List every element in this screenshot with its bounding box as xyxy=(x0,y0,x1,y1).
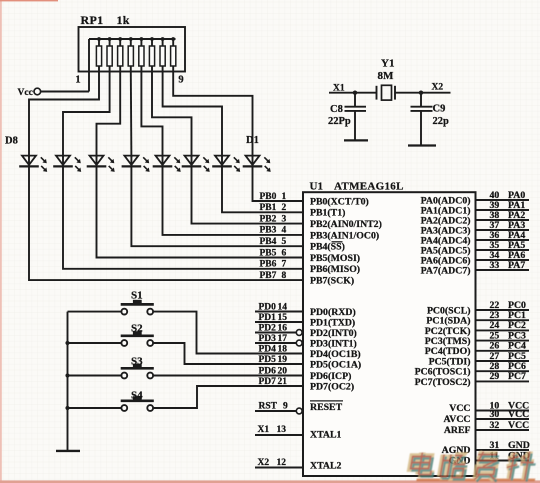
svg-text:20: 20 xyxy=(278,366,288,376)
svg-text:1: 1 xyxy=(282,192,287,202)
svg-text:PD6: PD6 xyxy=(259,366,277,376)
svg-text:Y1: Y1 xyxy=(381,58,394,70)
svg-text:ATMEAG16L: ATMEAG16L xyxy=(334,181,404,193)
svg-text:X1: X1 xyxy=(333,83,345,93)
svg-text:15: 15 xyxy=(278,313,288,323)
svg-text:X2: X2 xyxy=(258,458,270,468)
svg-text:33: 33 xyxy=(490,260,500,271)
svg-text:9: 9 xyxy=(178,75,183,86)
svg-text:4: 4 xyxy=(282,226,287,236)
svg-text:S2: S2 xyxy=(131,323,143,335)
svg-text:PB5(MOSI): PB5(MOSI) xyxy=(310,253,360,264)
svg-text:PB3(AIN1/OC0): PB3(AIN1/OC0) xyxy=(310,230,379,241)
svg-text:2: 2 xyxy=(282,203,287,213)
svg-text:XTAL2: XTAL2 xyxy=(310,461,341,472)
svg-text:D8: D8 xyxy=(5,136,18,147)
svg-text:PA7(ADC7): PA7(ADC7) xyxy=(421,265,471,276)
svg-text:AREF: AREF xyxy=(444,425,471,436)
svg-text:PC7(TOSC2): PC7(TOSC2) xyxy=(415,377,471,388)
svg-text:RESET: RESET xyxy=(310,402,343,413)
svg-text:22Pp: 22Pp xyxy=(328,116,351,127)
svg-text:1k: 1k xyxy=(117,13,130,27)
svg-text:30: 30 xyxy=(490,409,500,420)
svg-text:7: 7 xyxy=(282,260,287,270)
svg-text:22p: 22p xyxy=(433,116,450,127)
svg-text:X1: X1 xyxy=(258,425,270,435)
svg-text:PB2(AIN0/INT2): PB2(AIN0/INT2) xyxy=(310,219,382,230)
svg-text:14: 14 xyxy=(278,302,288,312)
svg-text:18: 18 xyxy=(278,344,288,354)
svg-text:PB3: PB3 xyxy=(260,226,277,236)
svg-text:PB0: PB0 xyxy=(260,192,277,202)
svg-text:VCC: VCC xyxy=(449,403,470,414)
svg-text:RST: RST xyxy=(259,402,278,412)
svg-text:9: 9 xyxy=(283,402,288,412)
svg-text:X2: X2 xyxy=(432,83,444,93)
svg-text:S4: S4 xyxy=(131,390,143,402)
svg-text:VCC: VCC xyxy=(508,409,529,420)
svg-text:PB6(MISO): PB6(MISO) xyxy=(310,264,360,275)
svg-text:PB4: PB4 xyxy=(260,237,277,247)
svg-text:6: 6 xyxy=(282,248,287,258)
svg-text:8M: 8M xyxy=(378,70,395,82)
svg-text:RP1: RP1 xyxy=(81,13,104,27)
svg-text:VCC: VCC xyxy=(508,420,529,431)
svg-text:S1: S1 xyxy=(131,290,143,302)
svg-text:16: 16 xyxy=(278,323,288,333)
svg-text:PD4(OC1B): PD4(OC1B) xyxy=(310,349,361,360)
svg-text:PB6: PB6 xyxy=(260,260,277,270)
svg-text:PD2(INT0): PD2(INT0) xyxy=(310,328,357,339)
svg-text:PB7: PB7 xyxy=(260,271,277,281)
svg-text:D1: D1 xyxy=(246,135,259,146)
svg-text:8: 8 xyxy=(282,271,287,281)
svg-text:PD6(ICP): PD6(ICP) xyxy=(310,371,351,382)
svg-text:PD2: PD2 xyxy=(259,323,277,333)
svg-text:12: 12 xyxy=(277,458,287,468)
svg-text:PD5(OC1A): PD5(OC1A) xyxy=(310,359,361,370)
svg-text:31: 31 xyxy=(490,440,500,451)
svg-text:PD0(RXD): PD0(RXD) xyxy=(310,307,356,318)
svg-text:PD7(OC2): PD7(OC2) xyxy=(310,381,354,392)
svg-text:3: 3 xyxy=(282,214,287,224)
svg-text:19: 19 xyxy=(278,355,288,365)
svg-text:C9: C9 xyxy=(433,104,446,115)
svg-text:PD3: PD3 xyxy=(259,334,277,344)
svg-text:U1: U1 xyxy=(310,181,323,193)
svg-text:32: 32 xyxy=(490,420,500,431)
svg-text:PD3(INT1): PD3(INT1) xyxy=(310,338,357,349)
svg-text:5: 5 xyxy=(282,237,287,247)
svg-text:1: 1 xyxy=(75,75,80,86)
svg-text:PD4: PD4 xyxy=(259,344,277,354)
svg-text:PB4(SS): PB4(SS) xyxy=(310,242,345,253)
svg-text:PA7: PA7 xyxy=(508,260,525,271)
svg-text:PC7: PC7 xyxy=(508,371,526,382)
svg-text:PD1: PD1 xyxy=(259,313,277,323)
svg-text:PB2: PB2 xyxy=(260,214,277,224)
svg-text:XTAL1: XTAL1 xyxy=(310,430,341,441)
svg-text:PB0(XCT/T0): PB0(XCT/T0) xyxy=(310,196,369,207)
svg-text:Vcc: Vcc xyxy=(18,88,33,98)
svg-text:S3: S3 xyxy=(131,356,143,368)
svg-text:29: 29 xyxy=(490,371,500,382)
svg-text:PD7: PD7 xyxy=(259,377,277,387)
svg-text:AVCC: AVCC xyxy=(443,414,470,425)
svg-text:PD1(TXD): PD1(TXD) xyxy=(310,317,355,328)
svg-text:17: 17 xyxy=(278,334,288,344)
svg-text:PB1: PB1 xyxy=(260,203,277,213)
svg-text:PB1(T1): PB1(T1) xyxy=(310,208,345,219)
svg-text:GND: GND xyxy=(508,440,530,451)
svg-text:PB5: PB5 xyxy=(260,248,277,258)
svg-text:PD0: PD0 xyxy=(259,302,277,312)
svg-text:PD5: PD5 xyxy=(259,355,277,365)
svg-text:21: 21 xyxy=(278,377,288,387)
svg-text:PB7(SCK): PB7(SCK) xyxy=(310,276,354,287)
svg-text:C8: C8 xyxy=(330,104,343,115)
svg-text:13: 13 xyxy=(277,425,287,435)
